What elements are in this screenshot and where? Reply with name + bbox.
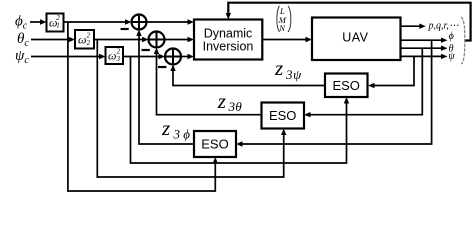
wire z3phi feedback ESO3 to sum1 — [139, 34, 194, 144]
svg-text:ϕc: ϕc — [15, 14, 28, 32]
summing junction S1 — [132, 15, 147, 30]
wire UAV output p,q,r — [400, 25, 420, 27]
arrowhead into ESO1 right — [368, 83, 375, 88]
arrowhead into sum1 — [125, 19, 132, 24]
vector label (L M N) left paren — [277, 6, 280, 32]
minus sign at sum3 — [158, 66, 166, 68]
arrowhead feedback into DI top — [226, 13, 231, 20]
arrowhead p,q,r — [419, 24, 426, 29]
wire phi_c input — [30, 21, 41, 23]
minus sign at sum2 — [142, 49, 150, 51]
arrowhead phi output — [441, 38, 448, 43]
svg-text:2: 2 — [56, 14, 60, 22]
svg-text:z: z — [274, 56, 283, 80]
block ESO2 (theta) — [262, 103, 305, 129]
wire branch theta control down to ESO2 bottom — [97, 40, 283, 178]
wire theta_c input — [31, 39, 70, 41]
svg-text:2: 2 — [87, 39, 91, 47]
arrowhead sum3 into DI — [188, 54, 195, 59]
arrowhead psi output — [441, 54, 448, 59]
wire branch phi control down to ESO3 bottom — [68, 22, 215, 191]
arrowhead into sum3 — [159, 54, 166, 59]
svg-text:ϕ: ϕ — [449, 31, 454, 42]
wire omega2 to sum2 — [94, 39, 143, 41]
arrowhead into omega2 — [69, 37, 76, 42]
arrowhead phi control into ESO3 bottom — [213, 157, 218, 164]
wire sum2 to Dynamic Inversion — [165, 39, 190, 41]
svg-text:ω: ω — [108, 49, 116, 63]
svg-text:z: z — [161, 116, 170, 140]
wire UAV output phi — [400, 39, 442, 41]
block ESO1 (psi) — [325, 74, 368, 98]
wire z3theta feedback ESO2 to sum2 — [157, 52, 262, 115]
wire UAV output psi — [400, 55, 442, 57]
svg-text:UAV: UAV — [342, 30, 368, 44]
svg-text:3 ϕ: 3 ϕ — [173, 127, 191, 142]
arrowhead into omega3 — [99, 54, 106, 59]
arrowhead sum2 into DI — [188, 37, 195, 42]
arrowhead z3theta into sum2 bottom — [154, 48, 159, 55]
arrowhead sum1 into DI — [188, 19, 195, 24]
svg-text:3θ: 3θ — [228, 99, 243, 114]
wire omega1 to sum1 — [63, 21, 126, 23]
svg-text:ESO: ESO — [332, 78, 359, 93]
arrowhead z3psi into sum3 bottom — [170, 65, 175, 72]
svg-text:ψc: ψc — [15, 48, 29, 66]
svg-text:θc: θc — [17, 31, 29, 49]
wire psi measurement tap to ESO1 right — [373, 56, 415, 85]
arrowhead theta output — [441, 46, 448, 51]
minus sign at sum1 — [121, 28, 129, 30]
wire z3psi feedback ESO1 to sum3 — [173, 69, 325, 86]
wire UAV output theta — [400, 47, 442, 49]
wire theta measurement tap to ESO2 right — [309, 48, 422, 115]
arrowhead psi control into ESO1 bottom — [344, 97, 349, 104]
arrowhead theta control into ESO2 bottom — [281, 129, 286, 136]
svg-text:ω: ω — [78, 33, 86, 47]
arrowhead z3phi into sum1 bottom — [136, 30, 141, 37]
wire sum3 to Dynamic Inversion — [181, 56, 189, 58]
block Dynamic Inversion — [194, 20, 262, 60]
wire state feedback from bracket to Dynamic Inversion top — [228, 3, 470, 41]
svg-text:ψ: ψ — [448, 51, 455, 62]
wire omega3 to sum3 — [123, 56, 160, 58]
arrowhead DI into UAV — [306, 37, 313, 42]
wire psi_c input — [31, 56, 101, 58]
svg-text:3: 3 — [116, 55, 121, 63]
arrowhead into ESO3 right — [236, 141, 243, 146]
svg-text:Inversion: Inversion — [203, 39, 254, 53]
svg-text:z: z — [217, 89, 226, 113]
block UAV — [312, 18, 401, 61]
wire sum1 to Dynamic Inversion — [147, 21, 190, 23]
block ESO3 (phi) — [194, 131, 236, 157]
arrowhead into sum2 — [142, 37, 149, 42]
arrowhead into ESO2 right — [304, 112, 311, 117]
arrowhead into omega1 — [40, 19, 47, 24]
svg-text:ESO: ESO — [269, 108, 296, 123]
svg-text:p,q,r,⋯: p,q,r,⋯ — [428, 21, 459, 32]
svg-text:3ψ: 3ψ — [285, 67, 302, 82]
svg-text:Dynamic: Dynamic — [204, 26, 253, 40]
summing junction S2 — [149, 32, 165, 48]
gain block omega1^2 — [47, 14, 64, 32]
vector label (L M N) right paren — [288, 6, 291, 32]
svg-text:1: 1 — [56, 22, 60, 30]
gain block omega2^2 — [75, 30, 94, 49]
svg-text:ESO: ESO — [201, 137, 228, 152]
output vector bracket — [461, 17, 465, 64]
gain block omega3^2 — [106, 47, 124, 64]
wire phi measurement tap to ESO3 right — [241, 40, 432, 144]
wire Dynamic Inversion to UAV — [262, 39, 307, 41]
wire branch psi control down to ESO1 bottom — [131, 57, 347, 164]
summing junction S3 — [165, 49, 181, 65]
